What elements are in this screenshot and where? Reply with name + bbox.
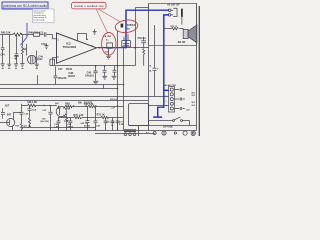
ground: [14, 64, 18, 67]
connector right stubs with caps: [175, 88, 185, 91]
resistor R77 vertical: [21, 124, 23, 131]
resistor R72: [88, 105, 96, 107]
capacitor C44: [1, 35, 5, 64]
wire input y35: [0, 35, 57, 39]
wire y105.4: [22, 105, 57, 107]
capacitor C53: [54, 67, 58, 85]
capacitor C45b dropper: [15, 35, 19, 64]
wire below IC y65.8: [55, 65, 136, 67]
switch and fuse wire: [149, 121, 190, 126]
bottom rail y127.7: [22, 127, 97, 129]
vertical bus x135: [136, 8, 149, 66]
tooltip note box: [33, 9, 55, 23]
ground: [112, 76, 117, 79]
capacitor C52: [113, 66, 117, 76]
resistor R70: [74, 116, 82, 118]
resistor R69: [65, 105, 72, 107]
connector CN3 body: [169, 87, 175, 113]
capacitor C61 stem: [2, 108, 4, 118]
capacitor C60b: [111, 118, 115, 131]
blue wire right column: [158, 15, 169, 117]
capacitor C50: [141, 37, 146, 48]
wire to speaker: [164, 29, 183, 30]
op-amp IC2 TDA2003: [57, 33, 97, 63]
vertical bus x117.5: [117, 30, 119, 130]
capacitor C59: [94, 107, 98, 131]
bus wire y101: [0, 100, 149, 102]
red ellipse A: [115, 19, 139, 34]
output wire y47.7: [97, 47, 149, 49]
page edge x199.4: [198, 6, 200, 136]
resistor R45: [13, 33, 22, 36]
connector bracket: [171, 8, 177, 16]
right border x196.5: [196, 4, 198, 131]
junction dots: [26, 34, 136, 118]
capacitor C61 left edge: [1, 113, 5, 115]
capacitor in ellipse B: [107, 43, 113, 48]
ground: [7, 64, 11, 67]
speaker box CN7 outline: [149, 4, 197, 46]
ground under ellipse B: [106, 48, 111, 59]
wire stub: [37, 75, 39, 84]
resistor R73: [101, 116, 109, 118]
bottom rail y133.2: [95, 133, 155, 135]
vertical bus x123.5: [123, 48, 125, 131]
wire: [26, 44, 28, 56]
wire y117.5: [58, 116, 124, 119]
resistor R50 vertical: [143, 49, 145, 66]
connector pin circles: [170, 88, 173, 91]
node dot: [26, 34, 28, 36]
capacitor C1000 blob in ellipse A: [121, 24, 124, 28]
vertical wire x21.8: [21, 104, 23, 124]
red leader line 1: [98, 9, 120, 22]
terminal circle: [168, 9, 171, 12]
resistor R68: [28, 104, 36, 107]
blue wire branch to connector: [164, 89, 169, 91]
capacitor C58: [104, 118, 108, 131]
resistor R69b vertical: [66, 114, 68, 131]
vertical bus x148.6: [148, 4, 150, 131]
wire y105.3 right: [149, 105, 169, 107]
blue wire terminus bar: [153, 116, 162, 118]
ground: [102, 76, 107, 79]
capacitor C66b: [57, 118, 61, 131]
value label 1000/16: [127, 23, 136, 30]
blue highlighted wire output to speaker: [126, 10, 169, 117]
pin5 stub wire: [53, 58, 57, 66]
capacitor C45: [44, 32, 46, 36]
transistor Q3: [7, 118, 15, 126]
wire dropper: [9, 35, 11, 64]
blue link box: [2, 2, 48, 9]
ground: [93, 81, 98, 84]
value label cap 1/50: [103, 35, 112, 53]
capacitor under ellipse A: [122, 41, 131, 47]
wire x154.6: [154, 25, 156, 97]
bottom rail y130.7: [0, 130, 197, 132]
ground: [1, 64, 5, 67]
red ellipse B: [102, 33, 116, 56]
terminal circle: [168, 14, 171, 17]
power block box: [129, 104, 149, 126]
junction stub: [103, 85, 105, 89]
bus wire y84.5: [0, 84, 124, 86]
resistor R76 vertical: [29, 118, 31, 128]
wire bottom y125.5: [129, 125, 197, 127]
capacitor C54 bar: [181, 9, 183, 17]
capacitor C69: [69, 118, 73, 131]
capacitor C49: [35, 51, 39, 64]
capacitor C51: [103, 66, 107, 76]
capacitor pack under power block: [124, 130, 136, 132]
potentiometer VR1: [28, 55, 37, 64]
wire: [181, 17, 183, 25]
resistor R48 vertical: [22, 35, 24, 64]
ground: [93, 29, 97, 34]
ground: [44, 43, 48, 48]
AC terminal circles: [153, 132, 156, 135]
capacitor C65: [49, 106, 53, 131]
scan noise overlay: [0, 0, 1, 1]
capacitor C66: [86, 107, 90, 131]
blue leader from tooltip: [21, 23, 28, 46]
component box near pin5: [50, 59, 55, 65]
capacitor C6A column: [28, 106, 32, 118]
speaker SP: [183, 29, 188, 38]
feedback loop wire: [78, 34, 87, 42]
switch SW1: [173, 120, 175, 122]
capacitor C55: [153, 68, 157, 70]
resistor R46 box: [34, 33, 40, 37]
ground marks second row: [2, 67, 38, 69]
red note box: [72, 2, 107, 9]
wire y105.9: [65, 106, 124, 108]
resistor R51: [171, 27, 178, 29]
transistor Q2: [56, 107, 66, 117]
ground: [20, 64, 24, 67]
bus wire y97: [0, 96, 169, 98]
capacitor C60: [116, 121, 120, 123]
capacitor C62: [20, 112, 24, 114]
capacitor C48: [93, 66, 97, 81]
bus wire y88.4: [0, 88, 118, 90]
wire stubs Q3: [13, 113, 22, 131]
ground: [35, 64, 39, 67]
red leader line 2: [96, 9, 108, 33]
blue overlay on output wire: [99, 47, 126, 49]
capacitor C60 stem: [117, 123, 119, 130]
